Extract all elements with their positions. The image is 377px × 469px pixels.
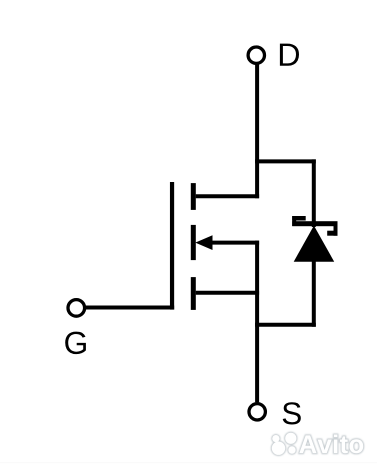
wire drain connection: [196, 194, 259, 198]
body arrow head: [195, 235, 212, 250]
MOSFET Q1 channel bar bottom (source): [191, 277, 196, 310]
wire drain vertical: [255, 62, 259, 198]
wire diode branch upper vertical: [312, 159, 316, 227]
wire source-to-diode horizontal: [255, 323, 316, 327]
watermark avito logo circles: [272, 433, 297, 455]
wire source vertical: [255, 241, 259, 403]
watermark avito text: [299, 435, 363, 454]
MOSFET Q1 channel bar middle (body): [191, 225, 196, 260]
label S: [283, 402, 301, 424]
MOSFET Q1 gate electrode vertical: [170, 182, 174, 310]
terminal D circle: [248, 47, 264, 63]
wire drain-to-diode horizontal: [255, 159, 316, 163]
wire diode anode vertical: [312, 261, 316, 327]
watermark avito shadow: [272, 433, 363, 455]
wire source connection: [196, 291, 259, 295]
diode D1 anode triangle: [294, 226, 335, 262]
label D: [280, 44, 299, 66]
wire gate horizontal: [86, 306, 174, 310]
label G: [65, 332, 86, 355]
MOSFET Q1 channel bar top (drain): [191, 183, 196, 210]
terminal S circle: [249, 404, 265, 420]
faint watermark strip line: [0, 462, 377, 463]
body arrow line: [209, 241, 259, 245]
diode D1 schottky cathode bar with hooks: [292, 216, 337, 236]
terminal G circle: [68, 300, 85, 317]
